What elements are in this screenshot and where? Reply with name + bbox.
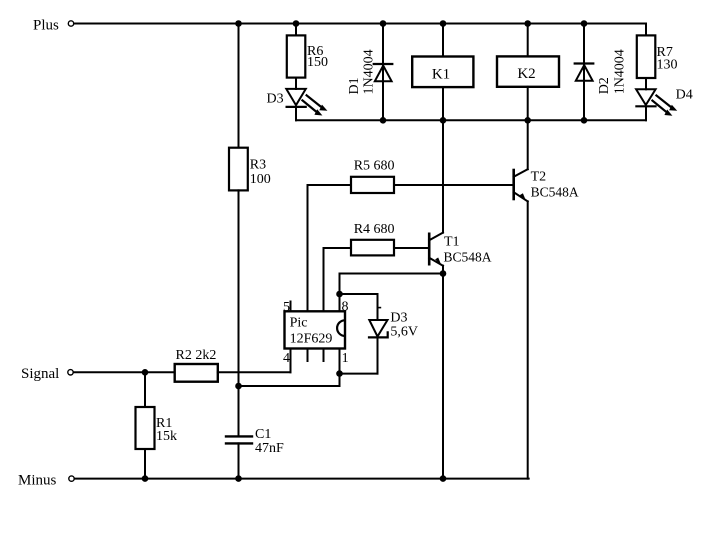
transistor T1 BC548A [429, 233, 492, 266]
wire R2 to pin 4 [218, 371, 291, 373]
svg-text:K1: K1 [432, 66, 450, 82]
pin label 4 [283, 351, 290, 366]
label 1N4004 (D1) [362, 49, 377, 94]
wire T2 emitter to minus rail [527, 201, 529, 478]
node dot D2/mid rail [581, 117, 588, 124]
node dot R1/minus rail [142, 475, 149, 482]
svg-text:D4: D4 [676, 88, 693, 103]
resistor R1 [136, 407, 178, 449]
label D2 [597, 77, 612, 94]
svg-text:1N4004: 1N4004 [613, 49, 628, 94]
wire R6 to LED D3 [295, 78, 297, 89]
svg-text:1: 1 [342, 351, 349, 366]
wire R3 top lead [238, 24, 240, 148]
node dot K1/mid rail [440, 117, 447, 124]
relay K2 [497, 56, 559, 86]
wire R1 top lead [144, 372, 146, 407]
svg-text:D1: D1 [347, 77, 362, 94]
wire mid horizontal rail [296, 119, 646, 121]
node dot K2/top rail [524, 20, 531, 27]
wire zener top lead [377, 294, 379, 320]
label R5 680 [354, 159, 395, 174]
wire R5 to T2 base [394, 184, 514, 186]
wire pin1 node down [339, 374, 341, 386]
svg-text:4: 4 [283, 351, 290, 366]
svg-text:15k: 15k [156, 429, 177, 444]
node dot C1/minus rail [235, 475, 242, 482]
svg-text:D3: D3 [390, 310, 407, 325]
node dot K2/mid rail [524, 117, 531, 124]
wire R1 bottom lead [144, 449, 146, 479]
wire R5 left lead [308, 184, 352, 186]
node dot D1/mid rail [380, 117, 387, 124]
svg-text:1N4004: 1N4004 [362, 49, 377, 94]
svg-text:BC548A: BC548A [531, 184, 579, 199]
label R4 680 [354, 222, 395, 237]
svg-text:5: 5 [283, 300, 290, 315]
LED D3 [286, 89, 327, 116]
pin 1 stub [339, 349, 341, 374]
pin 3 stub [307, 349, 309, 362]
wire R7 to LED D4 [645, 78, 647, 89]
wire pin8 node horizontal [340, 273, 444, 275]
resistor R7 [637, 35, 678, 78]
wire K2 top lead [527, 24, 529, 57]
wire K1 top lead [442, 24, 444, 57]
svg-text:T1: T1 [444, 235, 460, 250]
svg-text:100: 100 [250, 172, 271, 187]
diode D2 1N4004 [575, 24, 594, 121]
svg-text:12F629: 12F629 [290, 331, 333, 346]
svg-text:47nF: 47nF [255, 441, 284, 456]
pin 2 stub [323, 349, 325, 362]
label R2 2k2 [176, 348, 217, 363]
svg-text:R2 2k2: R2 2k2 [176, 348, 217, 363]
pin label 8 [342, 300, 349, 315]
svg-text:K2: K2 [517, 66, 535, 82]
wire R4 left riser to PIC pin 6 [323, 248, 325, 311]
svg-text:Signal: Signal [21, 366, 59, 382]
wire R4 left lead [324, 247, 352, 249]
resistor R5 [351, 177, 394, 193]
terminal Signal [68, 370, 73, 375]
resistor R4 [351, 240, 394, 256]
pin 8 stub [339, 294, 341, 311]
wire pin 4 riser [290, 349, 292, 373]
wire pin8 node vertical [339, 274, 341, 295]
svg-text:Plus: Plus [33, 17, 59, 33]
wire R6 top lead [295, 24, 297, 36]
label D1 [347, 77, 362, 94]
pin label 1 [342, 351, 349, 366]
node dot R6/top rail [293, 20, 300, 27]
diode D1 1N4004 [374, 24, 393, 121]
svg-text:Minus: Minus [18, 472, 57, 488]
transistor T2 BC548A [514, 169, 579, 201]
wire R4 to T1 base [394, 247, 429, 249]
node dot K1/top rail [440, 20, 447, 27]
wire pin1 node to R3/C1 node [239, 385, 340, 387]
wire top Plus rail [74, 23, 646, 25]
node dot T1 emitter/minus rail [440, 475, 447, 482]
svg-text:5,6V: 5,6V [390, 325, 418, 340]
label D3 (LED) [267, 91, 284, 106]
label D4 [676, 88, 693, 103]
pin label 5 [283, 300, 290, 315]
wire K2 bottom lead [527, 87, 529, 121]
wire zener to pin1 node [340, 373, 378, 375]
wire K2 to T2 collector [527, 120, 529, 169]
label 1N4004 (D2) [613, 49, 628, 94]
wire R7 top lead [645, 24, 647, 36]
svg-text:Pic: Pic [290, 316, 308, 331]
wire R3 bottom lead to C1 [238, 190, 240, 436]
node dot D1/top rail [380, 20, 387, 27]
node dot T1 emitter / pin8 [440, 270, 447, 277]
svg-text:R3: R3 [250, 158, 266, 173]
svg-text:R4 680: R4 680 [354, 222, 395, 237]
wire Signal to R2 [74, 371, 175, 373]
svg-text:150: 150 [307, 55, 328, 70]
node dot D2/top rail [581, 20, 588, 27]
node dot pin 1 [336, 370, 343, 377]
resistor R3 [229, 148, 271, 191]
wire K1 bottom lead [442, 87, 444, 120]
LED D4 [636, 89, 677, 115]
svg-text:T2: T2 [531, 169, 547, 184]
terminal Plus [68, 21, 73, 26]
svg-text:C1: C1 [255, 427, 271, 442]
resistor R2 [175, 364, 218, 382]
wire Minus rail [75, 478, 529, 480]
label Minus [18, 472, 57, 488]
label Plus [33, 17, 59, 33]
node dot pin 8 [336, 291, 343, 298]
wire LED D4 bottom lead [645, 106, 647, 120]
wire T1 emitter down [442, 266, 444, 274]
IC U1 PIC 12F629 [285, 311, 346, 348]
wire zener bottom lead [377, 337, 379, 373]
zener diode D3 5,6V [369, 308, 418, 340]
relay K1 [412, 57, 473, 88]
wire pin8 to zener top [340, 293, 378, 295]
svg-text:R5 680: R5 680 [354, 159, 395, 174]
capacitor C1 47nF [226, 427, 284, 456]
wire K1 to T1 collector [442, 120, 444, 232]
pin 5 stub [290, 302, 292, 312]
svg-text:D2: D2 [597, 77, 612, 94]
node dot R1/Signal [142, 369, 149, 376]
terminal Minus [69, 476, 74, 481]
wire LED D3 bottom lead [295, 107, 297, 120]
svg-text:8: 8 [342, 300, 349, 315]
svg-text:D3: D3 [267, 91, 284, 106]
node dot R3/C1 [235, 383, 242, 390]
wire R5 left riser to PIC pin 7 [307, 185, 309, 311]
svg-text:130: 130 [657, 57, 678, 72]
wire C1 bottom lead [238, 443, 240, 478]
wire T1 emitter to minus rail [442, 274, 444, 479]
resistor R6 [287, 35, 328, 77]
label Signal [21, 366, 59, 382]
node dot R3/top rail [235, 20, 242, 27]
svg-text:BC548A: BC548A [444, 250, 492, 265]
